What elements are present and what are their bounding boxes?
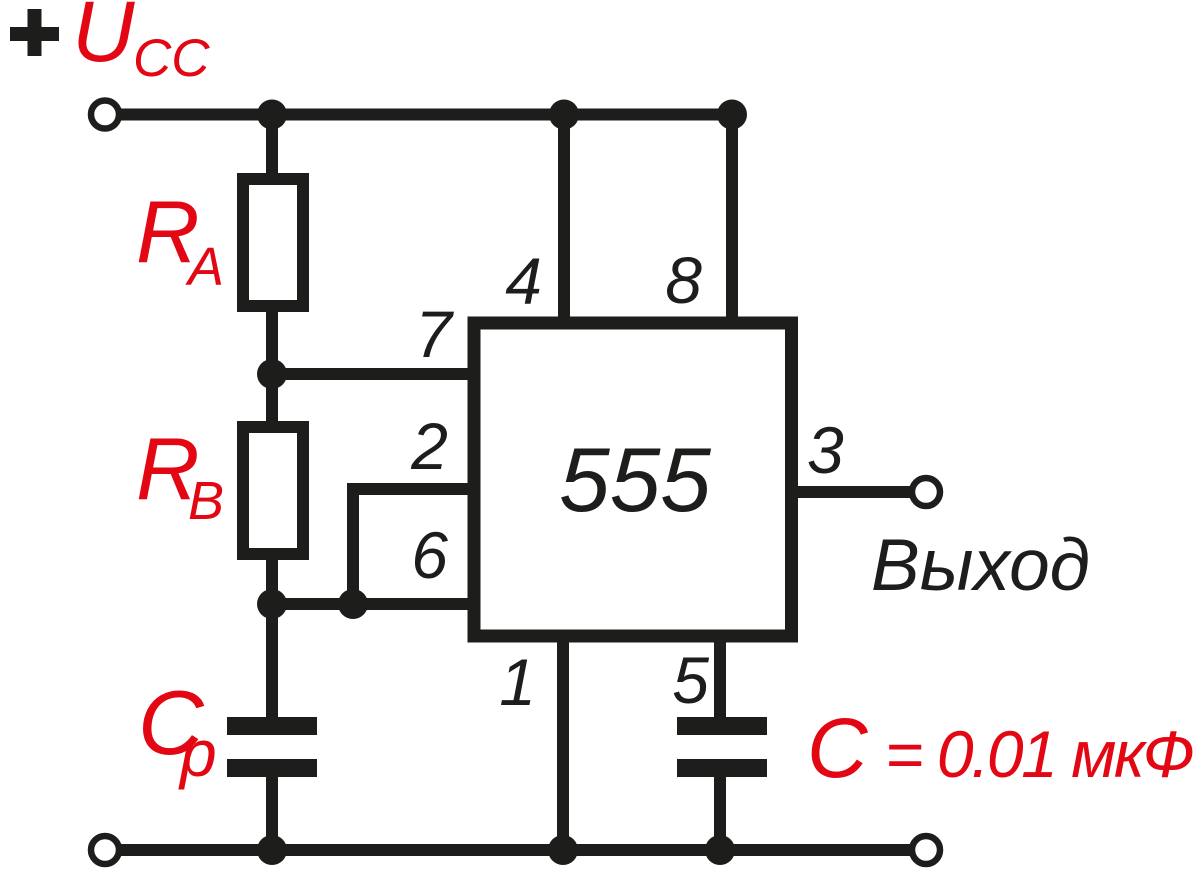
svg-text:B: B bbox=[188, 471, 224, 531]
svg-text:A: A bbox=[185, 237, 224, 297]
svg-text:1: 1 bbox=[499, 645, 536, 719]
svg-text:555: 555 bbox=[559, 430, 711, 531]
svg-text:2: 2 bbox=[410, 409, 448, 483]
svg-text:6: 6 bbox=[411, 518, 448, 592]
svg-text:7: 7 bbox=[415, 297, 454, 371]
svg-text:U: U bbox=[72, 0, 135, 80]
svg-text:8: 8 bbox=[665, 243, 702, 317]
svg-text:5: 5 bbox=[672, 643, 709, 717]
svg-text:Выход: Выход bbox=[871, 525, 1090, 606]
svg-text:C: C bbox=[807, 701, 869, 795]
svg-text:3: 3 bbox=[807, 413, 844, 487]
svg-text:p: p bbox=[178, 716, 217, 790]
svg-text:= 0.01 мкФ: = 0.01 мкФ bbox=[885, 717, 1195, 791]
svg-text:CC: CC bbox=[133, 29, 210, 88]
svg-text:4: 4 bbox=[505, 244, 542, 318]
